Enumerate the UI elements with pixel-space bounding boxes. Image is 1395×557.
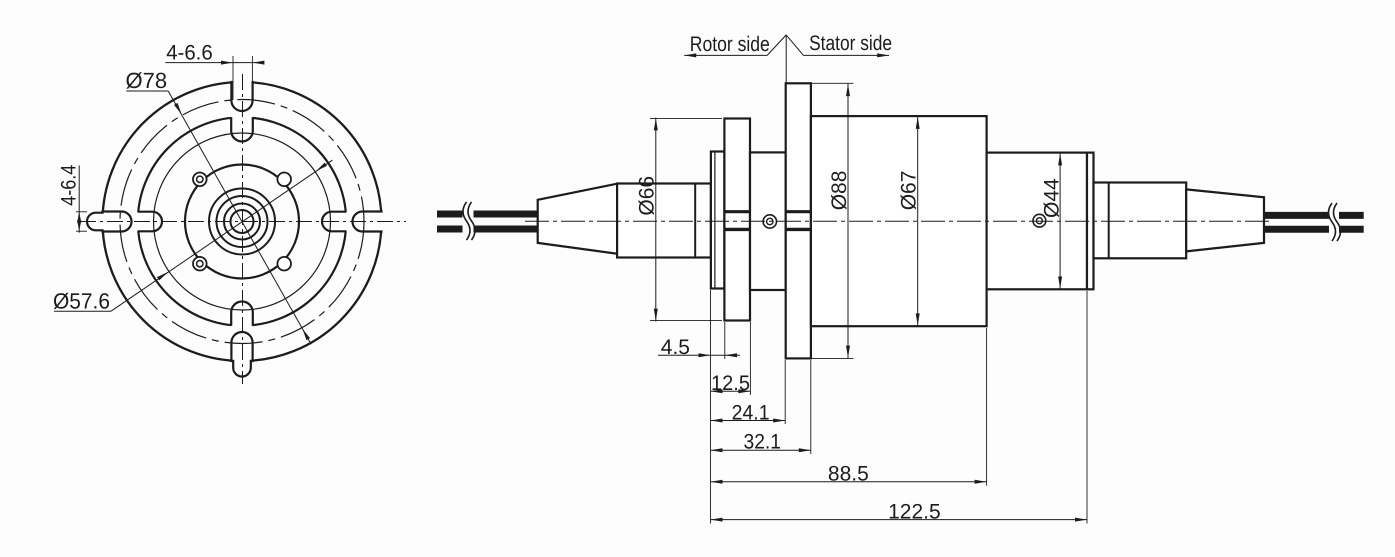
groove band plate66 lower	[724, 228, 750, 231]
screw symbol mid	[763, 215, 776, 228]
cable break symbol left	[463, 202, 470, 240]
groove band plate88 lower	[786, 228, 811, 231]
hub circle	[185, 165, 299, 279]
dim dia88 ext	[811, 82, 854, 84]
plate dia 66	[724, 119, 750, 321]
svg-text:32.1: 32.1	[744, 431, 782, 454]
ext line plate88 right	[810, 360, 812, 454]
svg-text:122.5: 122.5	[888, 501, 941, 524]
gasket plate	[711, 152, 725, 289]
rotor collar	[617, 184, 711, 258]
svg-text:12.5: 12.5	[711, 372, 750, 395]
dim 4-6.6 ext lines	[232, 56, 234, 100]
center ring 1	[231, 210, 254, 233]
stator cone	[1186, 189, 1264, 251]
slot north	[231, 116, 253, 142]
cylinder dia 44	[987, 153, 1087, 290]
slot west	[137, 212, 163, 232]
thin circle dia 57.6	[154, 133, 331, 310]
svg-text:Ø44: Ø44	[1041, 178, 1064, 218]
svg-text:Rotor side: Rotor side	[690, 33, 770, 56]
flange outer circle	[103, 82, 382, 361]
screw symbol dia44	[1033, 214, 1046, 227]
center ring 3	[217, 196, 268, 247]
ext line gasket right	[724, 322, 726, 359]
svg-text:Ø57.6: Ø57.6	[53, 289, 110, 314]
dim 4-6.6 arrows	[221, 61, 233, 65]
svg-text:Ø78: Ø78	[126, 68, 168, 93]
groove band plate66 upper	[724, 210, 750, 213]
dim dia88 line	[847, 83, 849, 358]
stator cable lower	[1264, 226, 1329, 233]
plate dia 88	[786, 83, 811, 358]
svg-text:Ø88: Ø88	[828, 171, 851, 211]
flange mid circle	[138, 117, 346, 325]
cable break symbol right	[1329, 203, 1336, 241]
groove band plate88 upper	[786, 210, 811, 213]
center ring 4	[209, 189, 275, 255]
dim 12.5 arrows	[711, 389, 723, 393]
center ring 2	[224, 204, 260, 240]
bolt hole 3	[193, 257, 207, 271]
svg-text:4-6.4: 4-6.4	[58, 165, 81, 206]
dim 4-6.6 line	[165, 62, 263, 64]
dim line dia78 diagonal	[168, 91, 311, 344]
rotor-stator separation line	[785, 35, 787, 83]
dim 4-6.4 ext lines	[76, 211, 87, 213]
dim 4.5 line	[658, 354, 740, 356]
dim dia44 line	[1059, 153, 1061, 290]
banner right arrow line	[804, 54, 890, 56]
dim 122.5 arrows	[711, 518, 723, 522]
rotor cone	[538, 184, 617, 254]
slot east	[322, 212, 348, 232]
ext line cyl44 right	[1086, 291, 1088, 524]
ext line plate66 right	[749, 322, 751, 395]
dim 32.1 arrows	[711, 448, 723, 452]
svg-text:Ø67: Ø67	[898, 171, 921, 211]
dim 88.5 arrows	[711, 480, 723, 484]
cylinder dia 67	[811, 116, 987, 326]
banner left arrow line	[684, 54, 767, 56]
slot south	[231, 302, 253, 328]
dim 88.5 line	[711, 481, 987, 483]
svg-text:4-6.6: 4-6.6	[166, 42, 213, 65]
svg-text:4.5: 4.5	[661, 336, 690, 359]
stator cable upper	[1264, 212, 1329, 219]
dim 4-6.4 arrows	[77, 212, 81, 223]
ext line plate88 left	[784, 360, 786, 424]
dim line dia57.6 diagonal	[111, 160, 333, 311]
dim dia78 underline	[126, 90, 168, 92]
dim 12.5 line	[711, 390, 751, 392]
dim 32.1 line	[711, 449, 811, 451]
svg-text:Ø66: Ø66	[636, 176, 659, 216]
dim dia67 line	[917, 116, 919, 326]
stator collar face line	[1108, 183, 1110, 259]
bolt hole 1	[193, 173, 207, 187]
left view centerline vertical	[242, 74, 244, 384]
banner peak	[767, 35, 786, 56]
svg-text:88.5: 88.5	[828, 463, 869, 486]
gasket face line	[714, 152, 716, 289]
ext line cyl67 right	[986, 328, 988, 486]
rotor cable lower	[437, 226, 463, 233]
svg-text:24.1: 24.1	[732, 401, 770, 424]
dim 122.5 line	[711, 519, 1088, 521]
dim 24.1 line	[711, 420, 786, 422]
bolt hole 2	[277, 173, 291, 187]
bolt hole 4	[277, 257, 291, 271]
dim 4-6.4 line	[78, 165, 80, 232]
dim 24.1 arrows	[711, 419, 723, 423]
mid cylinder	[750, 152, 786, 290]
right view centerline	[525, 220, 1273, 222]
rotor collar face line	[694, 184, 696, 258]
dash-dot circle dia 78	[120, 100, 364, 344]
dim dia66 ext	[650, 117, 722, 119]
dim dia66 line	[655, 118, 657, 322]
dim 4.5 arrows	[699, 353, 711, 357]
rotor cable upper	[437, 211, 463, 218]
end cap	[1087, 153, 1094, 290]
dim dia57.6 underline	[54, 310, 111, 312]
svg-text:Stator side: Stator side	[809, 32, 892, 55]
left view centerline horizontal	[80, 221, 406, 223]
ext line common left	[710, 290, 712, 524]
stator collar	[1094, 183, 1187, 259]
